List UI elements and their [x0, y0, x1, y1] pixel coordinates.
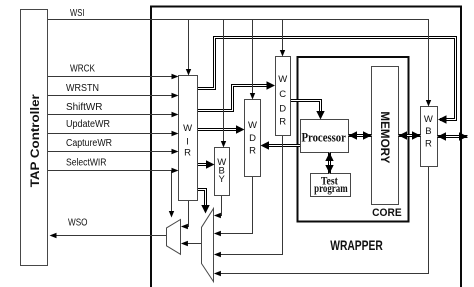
- svg-text:R: R: [184, 148, 191, 159]
- svg-text:CaptureWR: CaptureWR: [66, 138, 112, 149]
- svg-text:C: C: [279, 89, 286, 100]
- svg-text:WSI: WSI: [70, 8, 85, 19]
- svg-text:WRSTN: WRSTN: [66, 83, 99, 94]
- svg-text:W: W: [248, 120, 257, 131]
- svg-text:B: B: [425, 126, 431, 137]
- svg-text:W: W: [424, 114, 433, 125]
- svg-text:R: R: [425, 138, 432, 149]
- svg-text:WSO: WSO: [68, 218, 88, 229]
- svg-text:I: I: [186, 136, 189, 147]
- svg-text:R: R: [279, 117, 286, 128]
- svg-text:MEMORY: MEMORY: [378, 111, 390, 163]
- svg-text:Y: Y: [219, 174, 226, 185]
- svg-text:Processor: Processor: [301, 129, 346, 144]
- svg-text:ShiftWR: ShiftWR: [66, 102, 103, 113]
- svg-text:WRCK: WRCK: [70, 64, 95, 75]
- svg-text:D: D: [249, 133, 256, 144]
- svg-text:SelectWIR: SelectWIR: [66, 157, 107, 168]
- svg-text:D: D: [279, 104, 286, 115]
- svg-text:TAP Controller: TAP Controller: [28, 94, 42, 187]
- svg-text:W: W: [278, 74, 287, 85]
- svg-text:W: W: [183, 123, 192, 134]
- svg-text:WRAPPER: WRAPPER: [330, 237, 383, 253]
- svg-text:CORE: CORE: [372, 207, 402, 219]
- svg-text:R: R: [249, 146, 256, 157]
- svg-text:program: program: [314, 181, 348, 195]
- svg-text:UpdateWR: UpdateWR: [66, 119, 110, 130]
